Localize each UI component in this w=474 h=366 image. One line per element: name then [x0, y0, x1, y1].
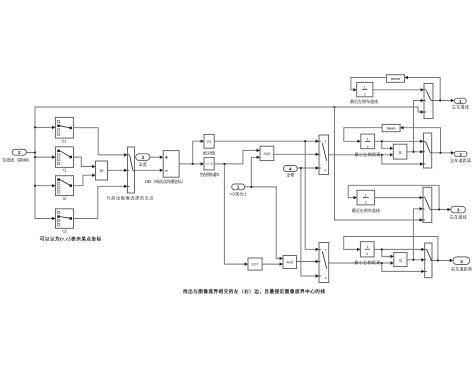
outport 2 left lane distance	[450, 151, 471, 163]
sum block 180 minus x	[145, 151, 186, 185]
inport 1 greater than zero	[230, 184, 248, 196]
unit delay 4 minimum right distance	[354, 242, 380, 265]
svg-text:2: 2	[459, 152, 462, 157]
wire multiport 3 output to outport 3 and unit delay 3 feedback	[348, 185, 451, 211]
svg-text:1: 1	[237, 185, 240, 190]
multiport switch 3 right lane	[423, 187, 432, 222]
svg-text:z: z	[365, 200, 367, 205]
svg-text:3: 3	[457, 208, 460, 213]
svg-text:mem: mem	[391, 77, 400, 81]
svg-text:z: z	[364, 92, 366, 97]
svg-text:T: T	[325, 140, 327, 144]
logical AND 2	[283, 256, 297, 269]
svg-text:180-（待选点的横坐标）: 180-（待选点的横坐标）	[145, 178, 186, 184]
memory 1 initial condition	[386, 75, 404, 83]
wire memory 1 output to unit delay 1 input	[351, 78, 387, 92]
switch 1 left distance valid	[319, 135, 329, 175]
multiport switch 2 left distance	[424, 133, 432, 168]
inport 3 half width	[136, 154, 150, 167]
logical NOT	[248, 258, 262, 270]
wire inport 4 zeros to switch F inputs	[297, 166, 319, 277]
wire c2 output to left multiport switch input 3	[74, 185, 128, 219]
left multiport switch	[107, 147, 154, 201]
multiport switch 1 left lane	[424, 84, 433, 119]
svg-text:≤: ≤	[399, 258, 402, 264]
wire switch 2 output to less-equal 2 input 2 and multiport 4 input 3	[329, 261, 425, 273]
wire input bus vertical from inport 2	[27, 107, 37, 219]
svg-text:右车道距离: 右车道距离	[451, 265, 472, 271]
svg-text:最小左侧距离: 最小左侧距离	[355, 151, 381, 157]
wire sum output branch to abs and compare-to-zero	[179, 140, 204, 166]
svg-text:3: 3	[142, 155, 145, 160]
svg-text:F: F	[325, 169, 327, 173]
wire comparator output to left multiport switch input 2	[108, 169, 128, 172]
wire c1 output to left multiport switch input 1	[73, 128, 127, 157]
svg-text:绝对值: 绝对值	[203, 149, 215, 155]
wire switch 1 output to less-equal 1 input 2 and multiport 2 input 3	[329, 153, 424, 166]
svg-text:可以认为(r,c)表示某点坐标: 可以认为(r,c)表示某点坐标	[40, 236, 102, 243]
svg-text:≥: ≥	[98, 169, 104, 172]
wire compare-to-zero output to AND1 and NOT	[214, 149, 260, 266]
wire abs output to switch T inputs	[214, 140, 319, 252]
svg-text:c1: c1	[62, 138, 67, 143]
wire r1 output to comparator input 1	[74, 157, 96, 168]
less-equal 2	[394, 252, 407, 266]
svg-text:最近右侧车道线: 最近右侧车道线	[352, 207, 380, 213]
wire less-equal 1 output to multiport 2 input 2 and multiport 1 input 2	[407, 99, 424, 154]
svg-text:1: 1	[459, 99, 462, 104]
wire multiport 1 output to outport 1 and memory 1 feedback	[405, 76, 455, 102]
svg-text:c2: c2	[62, 229, 67, 234]
outport 4 right lane distance	[451, 257, 472, 271]
wire inport 1 output to AND1 input 2 and AND2 input 1	[245, 156, 283, 261]
svg-text:找出与图像底界相交的左（右）边，且最接近图像底界中心的线: 找出与图像底界相交的左（右）边，且最接近图像底界中心的线	[183, 288, 325, 295]
wire top distribution line (current lane line)	[35, 106, 424, 114]
multiport switch 4 right distance	[425, 243, 432, 278]
svg-text:半宽: 半宽	[139, 161, 147, 167]
svg-text:最近左侧车道线: 最近左侧车道线	[350, 98, 378, 104]
switch 2 right distance valid	[319, 243, 329, 283]
selector r2	[56, 176, 74, 201]
wire NOT output to AND2 input 2	[262, 262, 283, 265]
unit delay 3 nearest right lane	[352, 190, 380, 213]
memory 2 initial condition	[382, 124, 400, 131]
wire unit delay 2 output to multiport 2 input 1 and less-equal 1 input 1	[375, 140, 424, 150]
inport 2 lane lines	[2, 149, 32, 162]
svg-text:>= 0: >= 0	[206, 162, 213, 166]
wire AND1 output to switch 1 control	[274, 153, 319, 156]
less-equal 1	[393, 144, 407, 159]
svg-text:4: 4	[460, 259, 463, 264]
wire AND2 output to switch 2 control	[297, 260, 320, 263]
selector c2	[56, 209, 74, 234]
wire branch to selector r2	[34, 184, 56, 187]
wire multiport 2 output to outport 2 and memory 2 feedback	[400, 126, 454, 155]
inport 4 zeros	[283, 166, 297, 178]
compare to zero block	[200, 158, 220, 178]
svg-text:最小右侧距离: 最小右侧距离	[354, 259, 380, 265]
logical AND 1	[260, 146, 274, 160]
wire branch to selector r1	[34, 155, 56, 158]
svg-text:NOT: NOT	[252, 263, 259, 267]
wire multiport 4 output to outport 4 and unit delay 4 feedback	[344, 237, 453, 263]
wire r2 output to comparator input 2	[74, 174, 96, 186]
wire less-equal 2 output to multiport 4 input 2 and multiport 3 input 2	[407, 207, 425, 261]
svg-text:2: 2	[18, 150, 21, 155]
wire default branch down to right-lane switch	[335, 107, 424, 222]
wire branch to selector c2	[35, 217, 56, 220]
svg-text:右车道线: 右车道线	[450, 213, 467, 219]
svg-text:左车道距离: 左车道距离	[450, 157, 471, 163]
svg-text:全零: 全零	[286, 172, 294, 178]
svg-text:4: 4	[289, 166, 292, 171]
svg-text:与前动图像选择的交点: 与前动图像选择的交点	[107, 195, 154, 201]
svg-text:z: z	[367, 143, 369, 148]
comparator GE rows	[96, 161, 108, 180]
svg-text:z: z	[366, 251, 368, 256]
unit delay 1 nearest left lane	[350, 82, 378, 103]
svg-text:左车道线: 左车道线	[452, 104, 469, 110]
wire unit delay 1 output to multiport 1 input 1	[373, 88, 424, 91]
svg-text:AND: AND	[286, 261, 294, 265]
abs block	[203, 134, 215, 155]
svg-text:F: F	[325, 277, 327, 281]
wire unit delay 3 output to multiport 3 input 1	[375, 196, 423, 199]
wire unit delay 4 output to multiport 4 input 1 and less-equal 2 input 1	[374, 248, 425, 258]
outport 1 left lane line	[452, 98, 469, 109]
wire left multiport switch output to sum input 2	[135, 169, 164, 172]
svg-text:mem: mem	[387, 127, 396, 131]
selector c1	[55, 117, 73, 143]
svg-text:|u|: |u|	[207, 140, 211, 144]
wire branch to selector c1	[34, 126, 55, 129]
wire memory 2 output to unit delay 2 input	[344, 128, 382, 143]
svg-text:T: T	[325, 248, 327, 252]
selector r1	[56, 147, 74, 173]
svg-text:车道线（第k帧）: 车道线（第k帧）	[2, 156, 32, 162]
outport 3 right lane line	[450, 206, 467, 219]
wire inport 3 to sum input 1	[150, 156, 163, 159]
svg-text:>0则为1: >0则为1	[230, 190, 248, 196]
svg-text:为左侧车道?1: 为左侧车道?1	[200, 171, 220, 177]
svg-text:AND: AND	[263, 152, 271, 156]
unit delay 2 minimum left distance	[355, 134, 381, 157]
svg-text:≤: ≤	[399, 150, 402, 156]
